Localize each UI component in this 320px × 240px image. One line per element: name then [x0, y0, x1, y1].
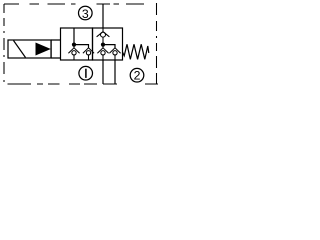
junction node right box: [101, 43, 105, 47]
enclosure border bottom (dash-dot): [8, 83, 159, 85]
port 1 line: [102, 60, 104, 84]
valve envelope right box: [93, 28, 123, 60]
wire junction to check valve E: [74, 45, 89, 48]
svg-text:3: 3: [82, 7, 89, 21]
enclosure border left (dash-dot): [3, 4, 5, 82]
port 3 line: [102, 4, 104, 28]
port 1 digit: [85, 69, 87, 78]
port 2 label circle: [130, 68, 144, 82]
enclosure border right (dash-dot): [151, 3, 157, 84]
solenoid armature pin box: [50, 40, 52, 58]
check valve A ball: [101, 32, 106, 37]
wire junction to check valve C: [103, 45, 115, 48]
port 2 line: [114, 60, 116, 84]
solenoid U1 box: [8, 40, 51, 58]
wire left box feed: [73, 28, 75, 45]
enclosure border top (dash-dot): [4, 3, 144, 5]
check valve B seat (below junction): [97, 45, 108, 60]
check valve E seat: [83, 48, 94, 60]
check valve D ball: [72, 51, 76, 55]
solenoid actuator arrow (filled triangle): [36, 43, 51, 56]
solenoid diagonal slash: [14, 41, 26, 58]
svg-text:2: 2: [134, 69, 141, 83]
check valve B ball: [101, 51, 105, 55]
check valve D seat (left box): [68, 45, 79, 60]
check valve E ball: [86, 51, 90, 55]
port 3 label circle: [79, 6, 93, 20]
junction node left box: [72, 43, 76, 47]
port 1 label circle: [79, 66, 93, 80]
check valve A seat (right box top): [97, 28, 110, 43]
check valve C ball: [113, 51, 117, 55]
check valve C seat: [109, 48, 120, 60]
valve envelope left box: [61, 28, 93, 60]
return spring: [123, 44, 149, 59]
